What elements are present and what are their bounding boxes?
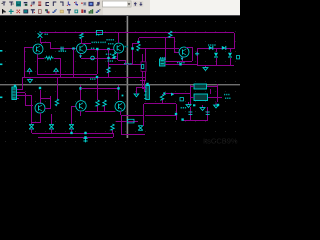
wire xyxy=(174,38,175,52)
wire xyxy=(138,38,139,41)
gray vertical line xyxy=(127,16,129,138)
wire xyxy=(32,122,40,123)
junction xyxy=(96,76,98,78)
resistor R15 xyxy=(160,95,163,101)
wire rail2 xyxy=(38,137,113,138)
resistor R10 xyxy=(55,99,58,106)
connector J1 xyxy=(12,87,17,100)
wire xyxy=(85,111,115,112)
wire xyxy=(40,38,41,42)
wire xyxy=(50,42,51,49)
wire Q3 collector xyxy=(118,33,119,43)
wire xyxy=(60,58,61,77)
wire Q3 emitter xyxy=(117,53,118,60)
label 0.022 xyxy=(59,51,67,53)
diode D7 xyxy=(69,125,74,130)
label R7 xyxy=(108,60,114,62)
wire xyxy=(57,77,58,99)
wire xyxy=(81,33,82,34)
grid dots xyxy=(5,21,236,142)
wire xyxy=(165,93,191,94)
diode D2 xyxy=(222,46,226,50)
ground xyxy=(203,65,208,70)
wire xyxy=(73,49,74,77)
wire xyxy=(216,58,217,65)
wire xyxy=(133,43,139,44)
connector JP2 xyxy=(160,59,166,66)
wire xyxy=(37,58,44,59)
wire xyxy=(97,88,98,100)
wire bias chain xyxy=(31,96,32,124)
wire pin3 xyxy=(17,95,32,96)
wire xyxy=(121,134,145,135)
wire xyxy=(138,43,139,44)
wire xyxy=(40,42,51,43)
ground xyxy=(214,103,219,108)
wire xyxy=(116,121,138,122)
wire xyxy=(136,88,137,94)
wire Q4 emitter xyxy=(182,57,183,61)
wire pin4 xyxy=(17,98,19,99)
junction xyxy=(84,136,86,138)
wire xyxy=(97,49,98,74)
Q4 emitter arrow xyxy=(181,58,184,61)
label C1 xyxy=(45,34,48,36)
comp small xyxy=(39,87,41,89)
wire xyxy=(145,48,146,62)
svg-text:ItsCCB9%: ItsCCB9% xyxy=(203,137,238,146)
wire xyxy=(234,33,235,49)
wire xyxy=(210,89,211,94)
wire xyxy=(190,85,191,105)
label lbl xyxy=(108,43,114,45)
wire xyxy=(37,58,38,74)
junction xyxy=(96,48,98,50)
transistor Q2 xyxy=(77,44,87,54)
label 1K xyxy=(91,48,94,50)
junction xyxy=(131,47,133,49)
label lbl xyxy=(100,42,106,44)
gray horizontal line xyxy=(0,84,240,85)
label Q3 xyxy=(125,46,128,48)
wire Q2-Q3 xyxy=(87,49,114,50)
wire VCC rail xyxy=(40,32,234,33)
wire xyxy=(162,100,163,104)
label lbl xyxy=(181,107,187,109)
wire xyxy=(140,80,146,81)
label 4.7K xyxy=(106,54,112,56)
resistor R13 inline xyxy=(128,119,135,123)
diode D4 xyxy=(228,53,232,57)
wire xyxy=(25,93,26,106)
junction xyxy=(84,132,86,134)
diode D1 xyxy=(209,46,213,50)
toolbar row1 right icons xyxy=(133,1,143,7)
diode D6 xyxy=(49,125,54,130)
wire left rail xyxy=(24,47,25,77)
wire xyxy=(31,129,32,133)
toolbar row2 icons xyxy=(2,9,101,14)
diode D9 xyxy=(83,137,87,142)
wire xyxy=(118,60,125,61)
wire xyxy=(40,90,41,104)
wire Q1 base xyxy=(24,47,33,48)
wire Q4 collector xyxy=(186,47,192,48)
wire Q6 top xyxy=(80,85,81,100)
wire xyxy=(162,94,163,95)
resistor R3 xyxy=(80,33,83,39)
toolbar combo box xyxy=(103,1,132,7)
wire xyxy=(121,115,122,134)
wire xyxy=(51,114,52,124)
label lbl xyxy=(90,78,96,80)
pin stub xyxy=(0,97,2,99)
wire xyxy=(109,64,141,65)
transistor Q3 xyxy=(114,43,124,53)
junction xyxy=(72,47,74,49)
wire to Q4 area xyxy=(140,48,179,49)
wire xyxy=(104,106,105,112)
wire bias xyxy=(71,106,72,124)
wire Q2 emitter xyxy=(80,54,81,58)
wire xyxy=(190,107,191,120)
resistor R14 xyxy=(111,124,114,130)
transistor Q7 xyxy=(115,101,125,111)
wire xyxy=(144,103,176,104)
wire xyxy=(183,120,208,121)
ground xyxy=(134,94,139,97)
capacitor C8 xyxy=(188,112,192,114)
wire xyxy=(216,48,217,52)
junction xyxy=(107,57,109,59)
wire Q4 base xyxy=(174,52,179,53)
transistor Q1 xyxy=(33,44,43,54)
diode D3 xyxy=(214,53,218,57)
wire bridge top xyxy=(197,48,234,49)
label Dlbl xyxy=(208,44,216,46)
wire xyxy=(81,88,119,89)
wire xyxy=(22,77,23,89)
wire common rail xyxy=(22,77,146,78)
wire AC2 xyxy=(165,64,197,65)
resistor RP1 xyxy=(112,53,115,59)
wire xyxy=(207,86,218,87)
wire xyxy=(108,49,109,77)
connector label xyxy=(14,85,16,87)
wire xyxy=(165,38,166,60)
pin stub xyxy=(0,64,2,66)
label OUT xyxy=(225,98,231,100)
junction xyxy=(107,48,109,50)
wire xyxy=(40,98,50,99)
junction xyxy=(179,63,181,65)
wire Q2 collector branch xyxy=(81,43,91,44)
wire rail1 xyxy=(32,133,114,134)
label MPSA lbl xyxy=(124,63,132,65)
toolbar row1 icons xyxy=(2,1,100,6)
wire xyxy=(125,60,126,64)
wire xyxy=(120,111,121,115)
wire Q5 emitter xyxy=(40,113,41,123)
wire xyxy=(190,86,194,87)
wire Q6 base xyxy=(72,106,76,107)
junction xyxy=(117,87,119,89)
wire xyxy=(54,58,60,59)
resistor R9 xyxy=(169,31,172,37)
wire xyxy=(113,133,114,137)
capacitor C6 xyxy=(237,56,240,59)
wire xyxy=(81,39,82,43)
junction xyxy=(181,118,183,120)
resistor R11 xyxy=(96,100,99,106)
power port arrow xyxy=(54,68,58,74)
transistor Q5 xyxy=(35,103,45,113)
power port arrow xyxy=(27,68,31,74)
wire xyxy=(197,48,198,65)
junction xyxy=(79,87,81,89)
wire Q1 collector xyxy=(41,42,42,44)
junction xyxy=(70,132,72,134)
wire coupling xyxy=(51,48,77,49)
resistor R4 inline xyxy=(97,30,103,34)
connector J2 xyxy=(144,86,149,100)
capacitor C5 xyxy=(195,52,199,56)
wire xyxy=(143,104,144,115)
capacitor C9 xyxy=(206,112,210,114)
gnd mark xyxy=(217,104,219,106)
wire xyxy=(81,58,117,59)
wire Q1 emitter xyxy=(37,54,38,58)
label lbl xyxy=(106,39,114,41)
resistor R2 xyxy=(44,56,53,59)
connector J2 label xyxy=(146,83,148,85)
canvas background xyxy=(0,0,240,145)
pin stub xyxy=(0,50,2,52)
wire pin2 xyxy=(17,92,25,93)
label R4 xyxy=(96,34,99,36)
regulator U1 xyxy=(194,84,207,89)
junction xyxy=(163,92,165,94)
wire xyxy=(139,37,175,38)
diode D10 arrow xyxy=(171,93,174,96)
Q2 emitter arrow xyxy=(79,55,82,58)
resistor R7 xyxy=(107,67,110,73)
wire xyxy=(230,48,231,52)
wire xyxy=(97,106,98,112)
ground xyxy=(200,105,205,110)
wire xyxy=(192,47,193,61)
diode D5 xyxy=(29,125,34,130)
wire xyxy=(80,111,81,116)
crystal X1 xyxy=(38,31,43,37)
wire xyxy=(142,80,143,88)
fuse F1 box xyxy=(141,62,146,72)
wire AC1 xyxy=(165,61,192,62)
wire xyxy=(208,97,222,98)
wire xyxy=(144,80,145,92)
transistor Q4 xyxy=(179,47,189,57)
wire xyxy=(217,84,218,102)
resistor R12 xyxy=(103,100,106,106)
wire upper rail xyxy=(37,74,97,75)
wire xyxy=(207,107,208,120)
wire xyxy=(142,88,146,89)
label 22K xyxy=(92,42,100,44)
wire xyxy=(136,87,145,88)
comp small xyxy=(193,104,195,106)
wire xyxy=(132,43,133,64)
wire xyxy=(45,108,50,109)
wire xyxy=(112,130,113,133)
wire Q7 top xyxy=(118,85,119,100)
wire xyxy=(121,115,144,116)
ground xyxy=(186,102,191,107)
label Q4lbl xyxy=(177,62,185,64)
capacitor C3 round xyxy=(91,56,95,60)
label +12V xyxy=(224,94,230,96)
regulator U2 xyxy=(194,94,208,101)
wire pin1 xyxy=(17,89,23,90)
transistor Q6 xyxy=(76,101,86,111)
wire xyxy=(230,58,231,65)
toolbar background xyxy=(0,0,240,16)
junction xyxy=(175,113,177,115)
wire xyxy=(142,71,143,80)
wire xyxy=(142,54,143,62)
label JP2 xyxy=(160,57,166,59)
comp small xyxy=(180,98,183,101)
wire xyxy=(176,115,177,120)
capacitor C2 xyxy=(61,47,63,51)
power arrow xyxy=(28,77,33,83)
wire xyxy=(143,115,144,126)
wire xyxy=(50,96,51,109)
wire xyxy=(145,71,146,80)
resistor R8 xyxy=(137,44,140,51)
wire xyxy=(176,104,177,115)
wire xyxy=(190,97,194,98)
wire xyxy=(97,77,98,88)
wire xyxy=(71,129,72,133)
wire bridge bottom xyxy=(197,65,234,66)
wire xyxy=(145,115,176,116)
wire Q5 base xyxy=(25,105,33,106)
wire xyxy=(51,129,52,133)
junction small xyxy=(122,95,124,97)
diode D8 xyxy=(138,126,143,131)
